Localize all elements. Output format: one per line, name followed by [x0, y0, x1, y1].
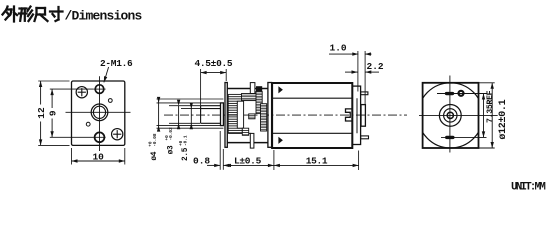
svg-text:4.5±0.5: 4.5±0.5	[194, 58, 232, 69]
svg-text:ø4: ø4	[151, 151, 159, 160]
svg-text:/Dimensions: /Dimensions	[65, 9, 143, 24]
svg-text:10: 10	[92, 152, 104, 163]
svg-text:-0.03: -0.03	[169, 127, 174, 141]
svg-text:-0.08: -0.08	[153, 133, 158, 147]
svg-text:12: 12	[36, 107, 47, 119]
svg-text:UNIT:MM: UNIT:MM	[511, 182, 546, 193]
svg-text:L±0.5: L±0.5	[234, 156, 262, 167]
svg-text:9: 9	[47, 110, 58, 116]
svg-text:-0.1: -0.1	[184, 135, 189, 146]
svg-text:7.35REF: 7.35REF	[486, 90, 495, 123]
svg-text:ø12±0.1: ø12±0.1	[498, 99, 509, 139]
svg-text:2.5: 2.5	[182, 147, 190, 161]
svg-text:15.1: 15.1	[306, 156, 328, 167]
svg-text:2.2: 2.2	[367, 61, 384, 72]
svg-text:2-M1.6: 2-M1.6	[100, 58, 133, 69]
svg-text:0.8: 0.8	[193, 156, 210, 167]
svg-text:ø3: ø3	[167, 145, 175, 154]
svg-text:1.0: 1.0	[330, 43, 347, 54]
